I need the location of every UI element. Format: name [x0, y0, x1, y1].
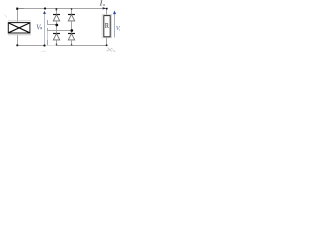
svg-text:R: R — [105, 21, 109, 30]
svg-text:a: a — [119, 27, 120, 32]
